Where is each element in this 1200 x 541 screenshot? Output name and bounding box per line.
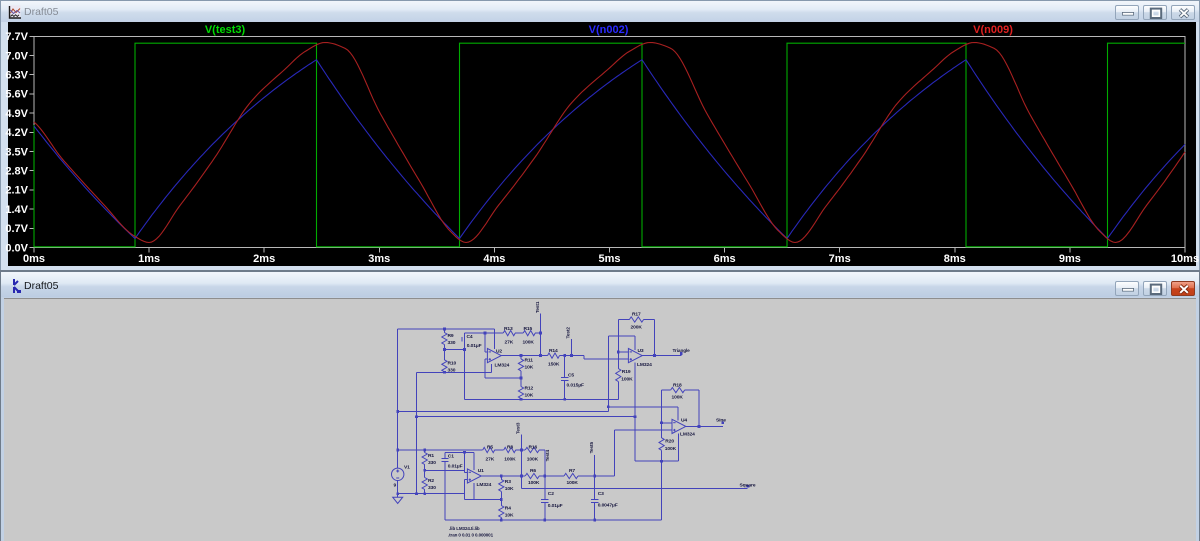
svg-text:V(n009): V(n009) [973,24,1013,36]
wire R18 left lead [662,389,671,391]
wire R6-R7 [539,475,564,477]
wire left ground riser [416,372,418,493]
wire R8-R16 [516,449,526,451]
wire R10 bottom rail [417,371,492,373]
ground [393,497,403,503]
wire R15 to U2 output [540,333,542,356]
junction [463,451,466,454]
wire R9 bottom lead [443,345,445,350]
wire top node U1 [398,449,483,451]
resistor R5 [483,447,495,452]
junction [539,354,542,357]
wire R11-R12 node [485,377,521,379]
svg-text:100K: 100K [567,480,579,486]
junction [415,415,418,418]
svg-text:R15: R15 [524,326,533,332]
wire Test5-C3 riser [594,455,596,499]
svg-text:27K: 27K [486,456,495,462]
plot background [8,22,1196,266]
resistor R13 [503,331,515,336]
plot axis box [30,36,1186,252]
wire R4 bottom lead [500,518,502,520]
wire U1 +in [465,479,468,481]
wire long feedback A [398,411,609,413]
junction [396,449,399,452]
wire V1 to ground [397,481,399,498]
junction [543,519,546,522]
resistor R12 [518,387,523,399]
wire U1 output [481,475,525,477]
waveform window icon [8,5,22,20]
svg-text:Test3: Test3 [516,422,521,434]
junction [539,332,542,335]
port Square [747,485,750,488]
wire ground rail [398,493,465,495]
wire C1 node [445,451,474,453]
svg-text:Test2: Test2 [566,327,571,339]
svg-text:10K: 10K [525,364,534,370]
svg-text:R6: R6 [530,468,536,474]
trace V(n009) sine wave [34,43,1185,243]
wire U1 -in drop [464,452,466,472]
capacitor C5 [561,377,568,380]
svg-text:.lib LM324.ti.lib: .lib LM324.ti.lib [449,526,480,531]
wire R4 top lead [500,500,502,506]
wire R11 top lead [520,356,522,359]
svg-text:100K: 100K [528,480,540,486]
svg-text:R5: R5 [487,444,493,450]
svg-text:100K: 100K [527,456,539,462]
svg-text:R4: R4 [505,506,511,512]
wire R17 right lead [644,319,655,321]
schematic window icon [8,278,24,294]
svg-text:2.8V: 2.8V [5,166,28,178]
wire step [583,356,585,360]
svg-text:LM324: LM324 [637,362,652,368]
wire C4 to R12 rail [464,341,466,399]
wire U3 V+ rail [608,335,635,337]
svg-text:330: 330 [448,340,456,346]
svg-text:R13: R13 [504,326,513,332]
junction [593,475,596,478]
wire long ground link [417,416,636,418]
svg-text:10K: 10K [505,486,514,492]
svg-text:100K: 100K [672,395,684,401]
svg-text:150K: 150K [548,361,560,367]
svg-text:V(test3): V(test3) [205,24,246,36]
wire Test3 stub [521,435,523,451]
svg-text:R2: R2 [428,478,434,484]
wire R1 bottom lead [424,465,426,471]
wire R7 right lead [578,475,614,477]
wire R14 left lead [541,355,548,357]
wire R18 right lead [685,389,699,391]
svg-text:C3: C3 [598,491,604,497]
svg-text:Sine: Sine [716,417,726,423]
junction [423,469,426,472]
wire U2 V+ pin [494,329,496,349]
wire bottom rail [445,519,662,521]
wire R3 top lead [500,476,502,479]
wire U3 feedback riser [607,336,609,412]
junction [607,405,610,408]
junction [520,354,523,357]
svg-text:U4: U4 [681,417,687,423]
svg-text:10K: 10K [525,392,534,398]
wire U3 -in [618,351,628,353]
svg-text:4ms: 4ms [483,253,505,265]
wire U4 V+ pin [677,407,679,421]
wire U4 -in [662,422,672,424]
svg-text:2.1V: 2.1V [5,185,28,197]
junction [520,398,523,401]
svg-text:V(n002): V(n002) [589,24,629,36]
wire U4 output Sine [686,425,723,427]
wire U3 V+ pin [634,336,636,350]
wire R19 bottom lead [617,382,619,400]
wire R18 to U4 output [698,390,700,426]
junction [543,475,546,478]
svg-text:R16: R16 [529,444,538,450]
wire R9 top lead [443,329,445,333]
svg-text:3ms: 3ms [368,253,390,265]
junction [500,498,503,501]
wire V1 top to top rail [397,329,399,468]
wire Square output [522,488,748,490]
wire box to bottom rail [661,461,663,520]
junction [500,475,503,478]
wire U2 +in [485,358,488,360]
resistor R6 [525,473,539,478]
resistor R20 [659,438,664,450]
svg-text:Square: Square [740,483,756,489]
junction [660,460,663,463]
wire divider to -in [425,469,465,471]
resistor R1 [422,453,427,465]
junction [443,328,446,331]
svg-text:200K: 200K [631,324,643,330]
svg-text:R7: R7 [569,468,575,474]
junction [570,354,573,357]
wire R12 top lead [520,378,522,386]
wire C5 top lead [564,356,566,377]
junction [484,332,487,335]
svg-text:6.3V: 6.3V [5,70,28,82]
junction [500,519,503,522]
svg-text:C5: C5 [568,372,574,378]
axis labels [5,31,1199,265]
wire R17 left lead [618,319,629,321]
svg-text:0ms: 0ms [23,253,45,265]
wire C4-R13 node [465,332,504,334]
capacitor C3 [591,499,598,502]
svg-text:1.4V: 1.4V [5,204,28,216]
wire R18-R20 riser [661,390,663,438]
wire C4 top [464,333,466,337]
svg-text:R1: R1 [428,453,434,459]
voltage source V1 [392,468,404,480]
svg-text:100K: 100K [523,339,535,345]
resistor R8 [504,447,516,452]
wire R5-R8 [495,449,504,451]
wire U4 +in [614,429,672,431]
junction [563,398,566,401]
svg-text:5ms: 5ms [598,253,620,265]
wire R3-R4 node [465,499,502,501]
wire U3 +in [584,358,628,360]
wire C3 bottom lead [594,503,596,520]
svg-text:0.01µF: 0.01µF [548,503,563,509]
svg-text:R17: R17 [632,311,641,317]
svg-text:C1: C1 [448,453,454,459]
svg-text:10K: 10K [505,513,514,519]
svg-text:Triangle: Triangle [673,348,691,353]
svg-text:LM324: LM324 [680,431,695,437]
svg-text:U2: U2 [496,348,502,354]
svg-text:Test4: Test4 [545,450,550,462]
schematic background [4,299,1196,541]
svg-text:7.0V: 7.0V [5,50,28,62]
resistor R16 [525,447,539,452]
wire R1 top lead [424,450,426,453]
junction [653,354,656,357]
svg-text:R10: R10 [448,360,457,366]
svg-text:9ms: 9ms [1059,253,1081,265]
wire R2 top lead [424,470,426,477]
svg-text:8ms: 8ms [944,253,966,265]
svg-text:V1: V1 [404,464,410,470]
wire U3 output [642,355,681,357]
wire R20 bottom lead [661,450,663,461]
svg-text:R9: R9 [448,333,454,339]
wire C2 bottom lead [544,503,546,520]
wire R15 right lead [535,332,540,334]
svg-text:R3: R3 [505,479,511,485]
svg-text:100K: 100K [504,456,516,462]
op-amp U1 [467,469,481,483]
wire R2 bottom lead [424,490,426,494]
resistor R19 [616,369,621,382]
svg-text:Test5: Test5 [589,442,594,454]
wire R14 right lead [560,355,585,357]
wire U2 +in drop [484,359,486,378]
resistor R18 [671,388,685,393]
wire C1 to bottom rail [444,462,446,520]
resistor R7 [564,473,578,478]
junction [593,519,596,522]
wire U3 V- riser [634,363,636,462]
svg-text:Test1: Test1 [535,301,540,313]
wire R16-C2 riser [544,450,546,499]
op-amp U2 [487,349,501,363]
junction [660,421,663,424]
op-amp U3 [628,349,642,363]
wire Test1 stub [540,314,542,334]
wire U4 box bottom [635,460,679,462]
wire U1 V+ pin [473,452,475,470]
capacitor C2 [541,500,548,503]
junction [443,371,446,374]
svg-text:7ms: 7ms [829,253,851,265]
wire U1 -in [465,471,468,473]
wire lower node rail [465,398,619,400]
svg-text:2ms: 2ms [253,253,275,265]
wire R3 bottom lead [500,491,502,499]
wire R10 top lead [443,349,445,359]
svg-text:0.01µF: 0.01µF [448,463,463,469]
svg-text:.tran 0 0.01 0 0.000001: .tran 0 0.01 0 0.000001 [448,532,494,537]
svg-text:4.2V: 4.2V [5,127,28,139]
svg-text:R18: R18 [673,382,682,388]
svg-text:7.7V: 7.7V [5,31,28,43]
svg-text:0.015µF: 0.015µF [567,382,584,388]
wire R9-C4 node [444,348,464,350]
junction [463,348,466,351]
junction [520,475,523,478]
resistor R4 [499,506,504,518]
wire U2 -in [485,351,488,353]
wire U4 +in riser [613,430,615,476]
wire U2 V- pin [491,364,493,372]
junction [396,410,399,413]
junction [617,351,620,354]
resistor R15 [523,331,535,336]
svg-text:9: 9 [394,482,397,488]
svg-text:C2: C2 [548,491,554,497]
svg-text:R20: R20 [665,438,674,444]
wire U2 inverting input drop [484,333,486,352]
junction [396,492,399,495]
resistor R14 [548,353,560,358]
wire R16 right lead [539,449,545,451]
trace V(test3) square wave [34,43,1185,247]
resistor R17 [629,317,643,322]
wire U1 +in drop [464,480,466,500]
resistor R2 [422,478,427,490]
trace V(n002) triangle wave [34,60,1185,239]
wire R10 bottom lead [443,371,445,374]
junction [563,354,566,357]
svg-text:6ms: 6ms [714,253,736,265]
svg-text:330: 330 [428,485,436,491]
svg-text:5.6V: 5.6V [5,89,28,101]
svg-text:R11: R11 [525,357,534,363]
wire U4 V- pin [678,433,680,461]
wire U2 output [501,355,540,357]
wire Test3-Square riser [521,450,523,489]
svg-text:100K: 100K [665,446,677,452]
wire U4 supply link [608,406,678,408]
svg-text:R12: R12 [525,385,534,391]
svg-text:R14: R14 [549,348,558,354]
svg-text:U3: U3 [638,348,644,354]
svg-text:330: 330 [428,460,436,466]
wire C5 bottom lead [564,381,566,400]
resistor R9 [442,333,447,345]
svg-text:LM324: LM324 [495,362,510,368]
svg-text:0.7V: 0.7V [5,223,28,235]
wire Test2 stub [571,339,573,356]
wire R11 bottom lead [520,371,522,378]
wire R17-R19 riser [617,320,619,369]
wire R13-R15 [515,332,523,334]
svg-text:R8: R8 [507,444,513,450]
resistor R11 [518,359,523,371]
junction [698,425,701,428]
waveform viewer window Draft05 [0,0,1200,270]
svg-text:27K: 27K [505,339,514,345]
port Sine [722,422,725,425]
wire R12 bottom lead [520,398,522,401]
svg-text:R19: R19 [622,369,631,375]
svg-text:1ms: 1ms [138,253,160,265]
junction [423,449,426,452]
port Triangle [680,352,683,355]
schematic editor window Draft05 [0,270,1200,541]
svg-text:0.01µF: 0.01µF [467,343,482,349]
svg-text:U1: U1 [478,468,484,474]
wire top rail [398,328,495,330]
svg-text:LM324: LM324 [477,482,492,488]
resistor R3 [499,479,504,491]
wire C1 top lead [444,452,446,458]
svg-text:4.9V: 4.9V [5,108,28,120]
op-amp U4 [672,419,686,433]
junction [423,492,426,495]
capacitor C1 [441,459,448,462]
wire U1 V- pin [473,483,475,499]
junction [443,348,446,351]
junction [520,377,523,380]
svg-text:C4: C4 [467,334,473,340]
resistor R10 [442,360,447,372]
junction [634,415,637,418]
svg-text:3.5V: 3.5V [5,146,28,158]
capacitor C4 [462,337,465,342]
junction [415,492,418,495]
wire R17 to U3 output [653,320,655,356]
junction [520,449,523,452]
svg-text:10ms: 10ms [1171,253,1199,265]
svg-text:0.0047µF: 0.0047µF [598,503,618,509]
svg-text:100K: 100K [621,376,633,382]
